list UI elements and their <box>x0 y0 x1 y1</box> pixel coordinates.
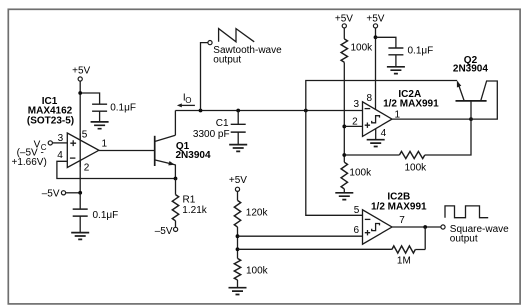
node VC input <box>34 139 41 150</box>
resistor 100k pullup <box>341 39 347 62</box>
wire pin 2 <box>344 125 362 127</box>
svg-text:3300 pF: 3300 pF <box>193 129 230 140</box>
node +5V supply IC1 <box>72 65 90 76</box>
svg-text:O: O <box>185 96 191 105</box>
wire -5V to bypass cap <box>79 193 81 209</box>
svg-text:5: 5 <box>82 130 88 141</box>
wire VC to pin 3 <box>52 142 67 144</box>
capacitor 0.1uF (-5V bypass) <box>73 209 88 216</box>
wire 1M feedback <box>415 227 425 250</box>
svg-text:100k: 100k <box>405 162 428 173</box>
wire to IC2B pin 5 <box>306 111 363 216</box>
svg-text:+5V: +5V <box>72 65 90 76</box>
comparator U2A IC2A 1/2 MAX991 <box>363 102 393 137</box>
svg-text:0.1μF: 0.1μF <box>408 45 434 56</box>
svg-text:+5V: +5V <box>229 175 247 186</box>
resistor 100k feedback <box>399 151 424 158</box>
node -5V below R1 <box>174 227 178 231</box>
svg-text:(SOT23-5): (SOT23-5) <box>27 115 74 126</box>
comparator U2B IC2B 1/2 MAX991 <box>363 210 393 244</box>
svg-text:4: 4 <box>57 150 63 161</box>
transistor Q2 2N3904 <box>453 55 488 74</box>
svg-text:5: 5 <box>354 205 360 216</box>
node junction to Q2 emitter line and IC2B pin 5 <box>304 109 308 113</box>
node sawtooth tap <box>199 109 203 113</box>
wire pullup to pin 2 node and ground resistor <box>343 62 345 162</box>
wire branch to bypass cap <box>80 93 99 104</box>
wire IC2B output to square-wave node <box>392 226 441 228</box>
node +5V divider <box>229 175 247 186</box>
transistor Q1 2N3904 <box>154 136 156 166</box>
svg-text:1/2 MAX991: 1/2 MAX991 <box>383 99 439 110</box>
pin 1 <box>102 138 108 149</box>
wire branch to bypass cap <box>376 37 396 48</box>
wire to Q2 emitter <box>306 81 457 111</box>
square wave icon <box>445 206 488 218</box>
svg-text:–5V: –5V <box>42 188 60 199</box>
node -5V <box>42 188 60 199</box>
pin 7 <box>399 215 405 226</box>
ground (IC1 top bypass) <box>91 122 109 129</box>
pin 4 <box>57 150 63 161</box>
ground (-5V bypass) <box>71 233 89 240</box>
pin 8 <box>367 93 373 104</box>
arrow IO <box>181 104 195 106</box>
svg-text:8: 8 <box>367 93 373 104</box>
resistor 120k <box>234 200 240 227</box>
svg-text:1/2 MAX991: 1/2 MAX991 <box>371 201 427 212</box>
ground (divider) <box>229 288 247 295</box>
pin 4 <box>381 128 387 139</box>
node +5V IC2A supply <box>366 13 384 24</box>
svg-text:+5V: +5V <box>335 13 353 24</box>
svg-text:100k: 100k <box>246 266 269 277</box>
pin 5 <box>82 130 88 141</box>
resistor 100k divider lower <box>234 258 240 280</box>
pin 5 <box>354 205 360 216</box>
ground (IC2A bypass) <box>387 67 405 74</box>
wire pin 4 feedback <box>57 161 176 178</box>
svg-text:–5V: –5V <box>155 226 173 237</box>
svg-text:100k: 100k <box>351 42 374 53</box>
svg-text:+5V: +5V <box>366 13 384 24</box>
svg-text:0.1μF: 0.1μF <box>110 102 136 113</box>
pin 1 <box>395 109 401 120</box>
resistor 100k to ground <box>341 162 347 189</box>
svg-text:100k: 100k <box>349 167 372 178</box>
node divider to 1M feedback <box>236 247 240 251</box>
op-amp U1 IC1 MAX4162 <box>67 133 99 168</box>
wire collector rail to IC2A pin 3 <box>175 110 362 112</box>
pin 2 <box>84 162 90 173</box>
pin 2 <box>352 117 358 128</box>
node divider mid to pin 6 <box>236 234 240 238</box>
wire IC1 output to Q1 base <box>99 150 155 152</box>
svg-text:2N3904: 2N3904 <box>453 63 488 74</box>
resistor 1M <box>392 246 415 253</box>
svg-text:2N3904: 2N3904 <box>176 150 211 161</box>
wire +5V to IC1 pin 5 and -5V rail <box>79 81 81 193</box>
pin 3 <box>58 133 64 144</box>
wire +5V to IC2A pin 8 <box>375 28 377 110</box>
svg-text:output: output <box>450 234 478 245</box>
svg-text:1: 1 <box>102 138 108 149</box>
svg-text:+1.66V): +1.66V) <box>12 157 47 168</box>
svg-text:120k: 120k <box>246 208 269 219</box>
resistor R1 1.21k <box>175 179 177 195</box>
wire feedback IC2A output through 100k <box>425 119 471 155</box>
svg-text:4: 4 <box>381 128 387 139</box>
svg-text:6: 6 <box>354 225 360 236</box>
ground (100k) <box>335 193 353 200</box>
pin 3 <box>354 99 360 110</box>
node +5V pullup <box>335 13 353 24</box>
svg-text:3: 3 <box>354 99 360 110</box>
ground (IC2A pin 4) <box>367 140 385 147</box>
svg-text:C1: C1 <box>216 118 229 129</box>
svg-text:0.1μF: 0.1μF <box>93 210 119 221</box>
node square-wave output <box>441 225 445 229</box>
svg-text:7: 7 <box>399 215 405 226</box>
ground (C1) <box>229 145 247 152</box>
svg-text:R1: R1 <box>183 195 196 206</box>
svg-text:output: output <box>213 55 241 66</box>
capacitor 0.1uF (IC2A bypass) <box>388 48 403 55</box>
wire pin 4 to ground <box>375 129 377 140</box>
svg-text:2: 2 <box>84 162 90 173</box>
pin 6 <box>354 225 360 236</box>
svg-text:1.21k: 1.21k <box>182 205 207 216</box>
capacitor C1 3300pF <box>236 109 240 113</box>
capacitor 0.1uF (IC1 top bypass) <box>92 104 107 111</box>
svg-text:2: 2 <box>352 117 358 128</box>
sawtooth wave icon <box>219 29 255 42</box>
svg-text:1M: 1M <box>397 255 411 266</box>
wire IC2A output to Q2 base node <box>392 118 471 120</box>
